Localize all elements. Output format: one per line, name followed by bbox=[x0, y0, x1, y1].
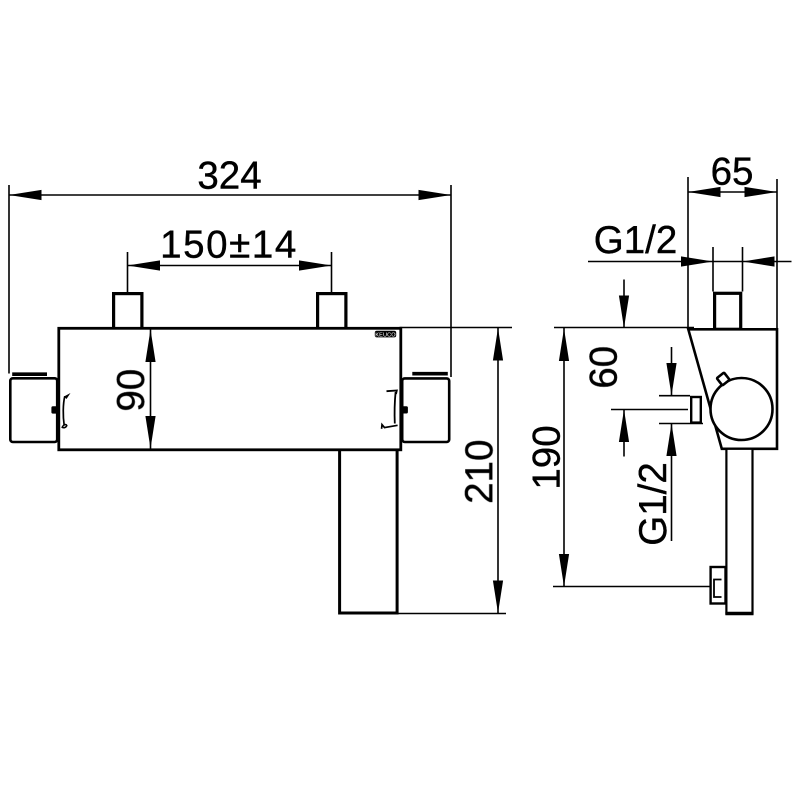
dim 65 extension line left bbox=[687, 177, 689, 328]
dim 210 line with arrows bbox=[493, 328, 503, 614]
dim 60 line upper with arrow bbox=[619, 280, 629, 329]
dim 324 extension line left bbox=[8, 185, 10, 374]
svg-text:G1/2: G1/2 bbox=[632, 462, 675, 545]
dim G1/2 top extension line right bbox=[742, 247, 744, 292]
front view: spout bbox=[340, 448, 398, 613]
side view: hose outlet stub bbox=[691, 397, 701, 423]
front view: right end-cap bbox=[402, 378, 449, 442]
side view: centre reference line bbox=[611, 409, 688, 411]
front view: right flow button dot bbox=[401, 406, 408, 413]
front view: left end-cap bbox=[10, 378, 57, 442]
side view: inlet connector bbox=[715, 293, 741, 329]
dim 324 line bbox=[9, 190, 451, 200]
dim 65 text bbox=[711, 151, 754, 194]
front view: right lever indicator J-mark bbox=[382, 391, 398, 429]
front view: right end-cap lip bbox=[412, 372, 448, 376]
front view: left flow button dot bbox=[51, 406, 57, 413]
front view: KEUCO logo plate bbox=[375, 331, 396, 339]
front view: main body bbox=[59, 328, 401, 450]
dim 150±14 line bbox=[128, 260, 332, 270]
dim 150±14 text bbox=[160, 224, 298, 267]
dim 324 extension line right bbox=[450, 185, 452, 377]
dim 65 line bbox=[688, 187, 777, 197]
svg-text:90: 90 bbox=[110, 369, 153, 412]
side view: outlet bottom extension line bbox=[659, 423, 703, 425]
svg-text:G1/2: G1/2 bbox=[594, 219, 677, 262]
dim G1/2 bottom text (rotated) bbox=[632, 462, 675, 545]
svg-text:210: 210 bbox=[458, 440, 501, 504]
dim G1/2 bottom line lower with arrow bbox=[666, 424, 676, 542]
dim 190 text (rotated) bbox=[526, 425, 569, 489]
dim 210 extension line bottom bbox=[399, 613, 507, 615]
front view: left end-cap lip bbox=[12, 372, 47, 376]
front view: left lever indicator squiggle bbox=[62, 393, 70, 428]
side view: wall bracket glider bbox=[711, 567, 726, 604]
svg-text:65: 65 bbox=[711, 151, 754, 194]
dim 190 bottom reference line bbox=[553, 586, 710, 588]
side view: slide bar bbox=[725, 449, 753, 614]
side view: top reference line bbox=[554, 327, 694, 329]
dim G1/2 top leader line with arrows bbox=[588, 256, 792, 266]
svg-text:60: 60 bbox=[583, 346, 626, 389]
side view: lever tab on knob bbox=[717, 373, 730, 386]
dim 90 text (rotated) bbox=[110, 369, 153, 412]
dim 190 line with arrows bbox=[559, 328, 569, 587]
front view: inlet connector right bbox=[318, 294, 346, 330]
dim 324 text bbox=[197, 155, 261, 198]
dim 90 line with arrows bbox=[145, 330, 155, 449]
dim 150±14 extension line left bbox=[127, 252, 129, 293]
front view: inlet connector left bbox=[114, 294, 142, 330]
dim G1/2 top text bbox=[594, 219, 677, 262]
dim 150±14 extension line right bbox=[331, 252, 333, 293]
dim 210 extension line top bbox=[400, 327, 513, 329]
side view: outlet top extension line bbox=[659, 395, 690, 397]
dim 210 text (rotated) bbox=[458, 440, 501, 504]
side view: handle knob circle bbox=[711, 378, 773, 440]
dim 65 extension line right bbox=[776, 179, 778, 328]
svg-text:150±14: 150±14 bbox=[160, 224, 298, 267]
dim G1/2 bottom line upper with arrow bbox=[666, 347, 676, 396]
dim 60 text (rotated) bbox=[583, 346, 626, 389]
svg-text:KEUCO: KEUCO bbox=[375, 332, 396, 338]
side view: body wedge bbox=[688, 329, 777, 449]
svg-text:190: 190 bbox=[526, 425, 569, 489]
dim 60 line lower with arrow bbox=[619, 410, 629, 457]
dim G1/2 top extension line left bbox=[712, 247, 714, 292]
svg-text:324: 324 bbox=[197, 155, 261, 198]
